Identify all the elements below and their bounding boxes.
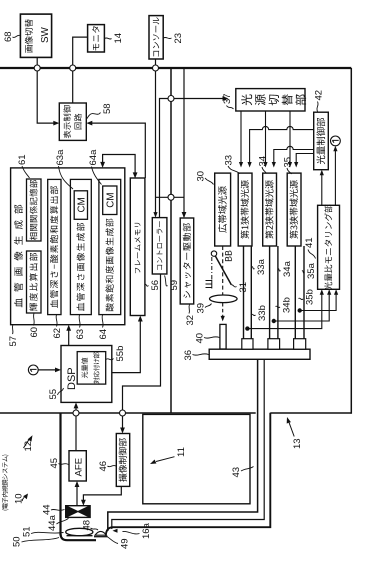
system caption [2,455,9,511]
label 60 [29,313,40,337]
label 14 [105,33,124,44]
objective lens window 50 [67,535,93,537]
label 57 [8,325,19,347]
wire circled1->DSP [38,368,61,373]
label 50 [12,536,60,547]
frame memory box 56 [130,178,145,316]
ferrule 34a-coupler [268,339,280,350]
light control box 42 [314,112,329,170]
label 32 [185,305,196,326]
svg-text:11: 11 [176,447,187,457]
wire 37->source33 [239,111,243,168]
wire controller->source switch 37 [160,96,229,218]
color map box 64a [103,186,117,215]
wire 41->circled1 [333,146,337,206]
label 34b [276,297,293,313]
svg-text:16a: 16a [141,522,152,539]
svg-text:45: 45 [49,458,60,469]
svg-text:34a: 34a [282,260,293,277]
label 35a [302,262,317,279]
label 55b [106,346,126,362]
svg-text:59: 59 [169,280,180,291]
title of box 57 [14,205,23,307]
connector circle bus-monitor [70,65,76,71]
label 42 [314,90,325,112]
oxygen saturation image generator box 64 [99,179,121,314]
fiber 35a [295,246,304,339]
label BB [225,251,232,262]
DSP box 55 [61,346,112,403]
svg-text:36: 36 [183,350,194,361]
wire 57<->framememory bracket [100,155,137,179]
display control circuit box 58 [59,103,86,140]
label 55 [48,388,64,400]
svg-text:13: 13 [292,438,303,449]
connector symbol 1 at DSP [28,365,38,375]
connector circle left-46wire [120,410,126,416]
label 63a [55,149,73,189]
label 34 [258,156,269,174]
svg-text:51: 51 [22,526,33,537]
label 11 [150,447,187,464]
scope upper wall [59,413,61,535]
wire 46->CCD [81,486,121,505]
label 30 [196,171,214,185]
connector circle divider-shutterwire [168,194,174,200]
label 33 [224,155,241,174]
label 33a [252,258,268,275]
shutter 31 blade [214,254,231,285]
svg-text:64: 64 [98,329,109,340]
connector symbol 1 at 42 [331,136,341,146]
wire shutterdriver-bus [182,69,187,218]
luminance ratio calculator box 60 [27,251,42,313]
color map box 63a [74,191,87,220]
wire 41->42 [320,170,324,206]
svg-text:37: 37 [222,93,233,104]
svg-text:48: 48 [82,520,93,531]
svg-text:68: 68 [3,31,14,42]
label 13 [287,417,303,449]
label 37 [222,93,234,109]
light control riser 42->source35 [294,154,314,168]
controller box 59 [152,218,167,274]
light source switch box 37 [236,89,306,111]
label 64 [98,315,109,340]
svg-text:55b: 55b [115,346,126,362]
label 10 [14,493,29,504]
connector circle bus-console [153,65,159,71]
ferrule 35a-coupler [294,339,306,350]
label 58 [87,103,114,119]
label 51 [22,526,64,537]
label 56 [145,280,161,291]
coupler 36 [209,349,310,359]
svg-text:34: 34 [258,156,269,167]
svg-text:33a: 33a [256,258,267,275]
shutter pivot [211,251,216,256]
wire DSP->57 [66,325,71,346]
vessel image generation unit box 57 [11,168,125,325]
broadband beam axis BB dashed [222,246,224,297]
label 62 [52,315,63,339]
label 46 [98,461,116,472]
vessel depth-oxygen saturation calculator box 62 [48,179,61,314]
light guide line B [112,359,264,529]
1st narrowband source box 33 [238,173,252,246]
wire 58->monitor [73,37,88,103]
label 12 [23,435,34,451]
svg-text:CM: CM [106,192,117,207]
svg-text:32: 32 [185,315,196,326]
label 63 [75,315,86,340]
label 39 [196,303,212,314]
svg-text:23: 23 [173,33,184,44]
svg-text:44: 44 [42,504,53,515]
console box 23 [149,16,163,59]
enclosure left edge with light-guide gap [0,412,351,414]
svg-text:50: 50 [12,536,23,547]
enclosure bottom edge [350,68,352,414]
label 23 [163,33,184,44]
svg-text:58: 58 [102,103,113,114]
wire framememory->58 [86,121,145,178]
light value assoc box 55b [77,352,106,385]
endoscope body box 11 [143,414,250,503]
label 36 [183,350,209,361]
svg-text:DSP: DSP [66,367,78,390]
label 64a [88,149,102,185]
label 35 [283,157,294,174]
svg-text:SW: SW [40,26,51,43]
label 34a [278,260,293,277]
objective lens 51 [66,528,93,535]
branch junction dot 35b [298,308,302,312]
svg-text:40: 40 [195,333,206,344]
branch junction dot 34b [272,319,276,323]
label 45 [49,458,69,469]
label 48 [82,520,99,531]
light control riser 42->source34 [272,146,314,167]
fiber 34a [270,246,278,339]
fiber 33a [244,246,252,339]
label 16a [123,522,153,539]
light guide in scope 16a/43 line A [108,359,258,533]
svg-text:62: 62 [52,328,63,339]
svg-text:AFE: AFE [73,458,84,477]
correlation memory box 61 [27,179,42,241]
svg-text:33b: 33b [257,305,268,321]
shutter support hatch [206,280,213,289]
broadband light source box 30 [215,173,231,246]
svg-text:49: 49 [120,538,131,549]
label 33b [251,305,268,321]
label 44a [47,514,69,531]
label 59 [165,276,181,291]
wire DSP->framememory [112,316,143,373]
svg-text:60: 60 [29,327,40,338]
svg-text:39: 39 [196,303,207,314]
branch fiber 35b [300,289,339,310]
AFE box 45 [69,451,86,481]
divider between processor 12 and light source 13 [170,68,172,413]
branch fiber 33b [247,289,324,328]
svg-text:44a: 44a [47,514,58,531]
svg-text:14: 14 [113,33,124,44]
wire CCD->AFE [75,481,80,506]
shutter driver box 32 [180,218,194,304]
wire consolewire->shutterdriver link [156,196,185,198]
svg-text:43: 43 [231,467,242,478]
image switch SW box 68 [20,14,51,57]
label 41 [304,237,316,258]
svg-text:35b: 35b [305,289,316,305]
wire console->controller [153,59,157,218]
label 43 [231,467,254,478]
scope tip cap [61,534,97,540]
wire 37->source35 [288,111,292,168]
fiber rod 40 [220,324,226,349]
label 40 [195,333,220,344]
connector circle divider-37wire [168,96,174,102]
svg-text:41: 41 [304,237,315,248]
ferrule 33a-coupler [242,339,253,350]
connector circle left-AFEwire [73,410,79,416]
wire 37->source34 [263,111,267,168]
label 31 [232,282,250,293]
wire controller->imaging control 46 [120,274,160,434]
svg-text:42: 42 [314,90,325,101]
svg-text:56: 56 [150,280,161,291]
wire AFE->DSP [74,402,79,450]
label 35b [299,289,316,305]
svg-text:35a: 35a [306,262,317,279]
svg-text:30: 30 [196,171,207,182]
vessel depth image generator box 63 [70,179,91,314]
label 44 [42,504,65,515]
light control riser 42->source33 with jumps [248,126,314,167]
condenser lens 39 [210,295,238,303]
illumination lens 48 [94,531,108,536]
shutter support link dashdot [211,256,213,279]
label 49 [105,535,131,549]
processor+light-source enclosure right edge (main boundary line) [0,67,351,69]
CCD box 44 [66,506,90,518]
svg-text:63: 63 [75,329,86,340]
svg-text:33: 33 [224,155,235,166]
connector circle bus-SW [34,65,40,71]
svg-text:63a: 63a [55,149,66,166]
branch junction dot 33b [245,326,249,330]
label 61 [17,154,30,178]
label 68 [3,31,20,42]
light ratio monitoring box 41 [318,205,340,290]
monitor box 14 [88,25,105,52]
svg-text:57: 57 [8,336,19,347]
branch fiber 34b [274,289,332,321]
3rd narrowband source box 35 [287,173,301,246]
wire 68->58 [37,57,59,125]
scope outer tube wall [106,413,270,536]
svg-text:61: 61 [17,154,28,165]
imaging control box 46 [116,434,129,487]
svg-text:64a: 64a [88,149,99,166]
2nd narrowband source box 34 [263,173,277,246]
beam into rod 40 dashed arrow [221,303,225,321]
svg-text:CM: CM [77,197,88,212]
svg-text:34b: 34b [282,297,293,313]
